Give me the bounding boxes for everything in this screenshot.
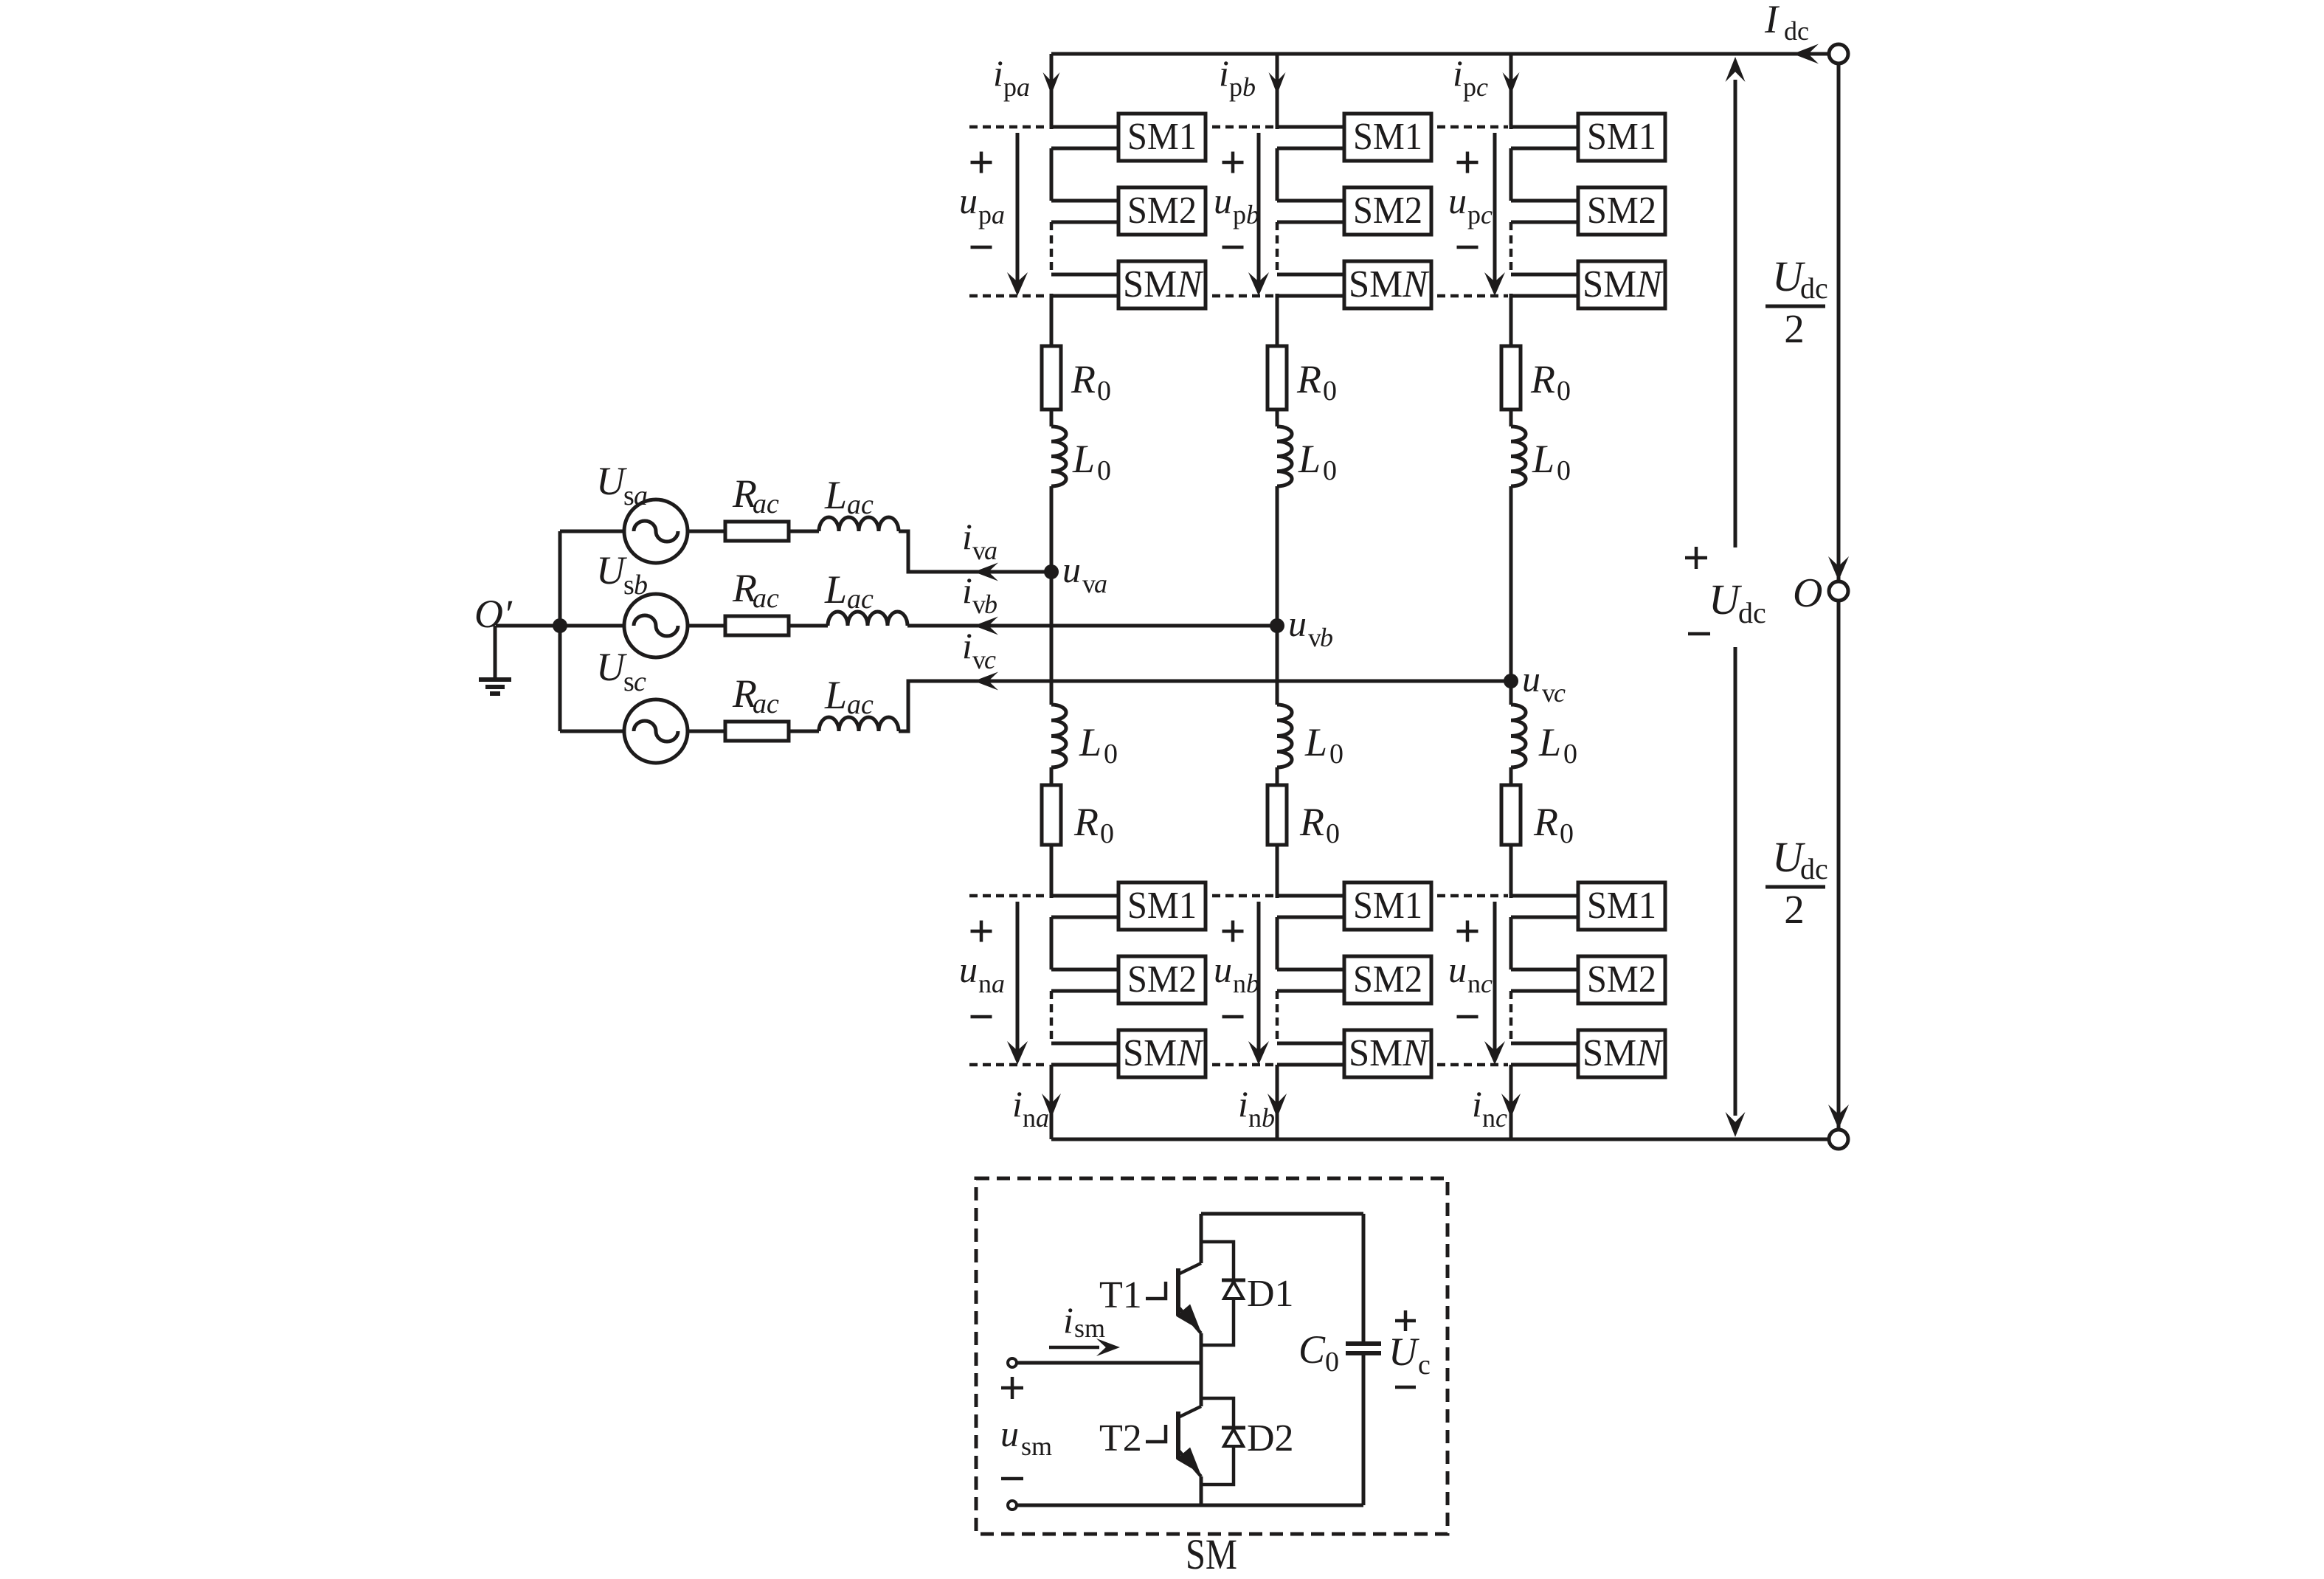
wire source lead left (phase c) xyxy=(560,730,624,733)
svg-text:T2: T2 xyxy=(1099,1417,1142,1459)
svg-text:0: 0 xyxy=(1326,818,1340,849)
wire SMN bottom lead (na) xyxy=(1051,1063,1118,1067)
wire top DC bus xyxy=(1051,52,1829,56)
svg-text:SM2: SM2 xyxy=(1353,958,1422,1001)
node SM input terminal bottom xyxy=(1008,1501,1017,1510)
arrow i_pb xyxy=(1269,72,1286,94)
svg-text:ac: ac xyxy=(753,688,779,719)
svg-text:dc: dc xyxy=(1738,596,1766,629)
resistor R_ac (phase c) xyxy=(725,722,789,741)
svg-text:ac: ac xyxy=(753,583,779,614)
resistor R_ac (phase a) xyxy=(725,522,789,541)
wire SM1-SM2 link (nc) xyxy=(1509,917,1513,970)
svg-text:0: 0 xyxy=(1557,455,1571,486)
arrow u_pb dimension xyxy=(1248,133,1269,296)
label − (U_c) xyxy=(1395,1386,1416,1389)
resistor R0 (upper arm b) xyxy=(1268,346,1287,410)
SM detail dashed box xyxy=(976,1178,1448,1534)
svg-text:i: i xyxy=(962,625,972,666)
svg-text:U: U xyxy=(596,548,627,592)
svg-text:b: b xyxy=(984,590,997,619)
wire SMN bottom lead (pa) xyxy=(1051,294,1118,298)
arrow i_pc xyxy=(1503,72,1520,94)
wire R0 to SM1 (lower a) xyxy=(1050,845,1054,898)
svg-text:p: p xyxy=(978,200,992,229)
svg-text:0: 0 xyxy=(1325,1347,1339,1378)
arrow i_va xyxy=(974,563,998,581)
voltage source U_sb xyxy=(624,594,688,657)
wire SM2 top lead (pc) xyxy=(1511,199,1578,203)
svg-text:SM1: SM1 xyxy=(1353,116,1422,158)
inductor L0 (upper arm c) xyxy=(1511,426,1526,486)
svg-text:b: b xyxy=(634,570,648,601)
label i_sm xyxy=(1063,1299,1105,1343)
label − (u_sm) xyxy=(1001,1477,1023,1481)
svg-text:0: 0 xyxy=(1557,376,1571,407)
svg-text:SMN: SMN xyxy=(1583,263,1664,305)
wire SM top rail xyxy=(1201,1212,1363,1216)
svg-text:u: u xyxy=(1000,1413,1019,1454)
wire SMN top lead (pb) xyxy=(1277,273,1344,277)
wire source to R_ac (phase c) xyxy=(688,730,725,733)
label i_nb xyxy=(1238,1083,1275,1133)
node u_vb xyxy=(1270,618,1284,633)
label u_vc xyxy=(1522,658,1566,708)
wire node to L0 (lower a) xyxy=(1050,572,1054,705)
label U_sc xyxy=(596,645,646,697)
svg-text:SM1: SM1 xyxy=(1353,885,1422,927)
inductor L0 (upper arm a) xyxy=(1051,426,1066,486)
wire SM1-SM2 link (na) xyxy=(1050,917,1054,970)
svg-text:b: b xyxy=(1262,1103,1275,1133)
label − (u_pc) xyxy=(1457,246,1479,249)
wire node to L0 (lower b) xyxy=(1276,626,1279,705)
node AC neutral junction xyxy=(553,618,567,633)
wire SM1 bottom lead (pc) xyxy=(1511,147,1578,151)
label u_va xyxy=(1062,549,1107,598)
wire SM1 top lead (pa) xyxy=(1051,125,1118,129)
label R_ac (phase b) xyxy=(732,566,779,614)
svg-text:U: U xyxy=(596,645,627,689)
wire AC neutral bus xyxy=(558,531,562,731)
arrow u_nc dimension xyxy=(1484,902,1505,1065)
wire SM1-SM2 link (nb) xyxy=(1276,917,1279,970)
label u_na xyxy=(959,949,1005,998)
label u_nb xyxy=(1214,949,1259,998)
wire O' lead xyxy=(496,624,560,628)
svg-text:0: 0 xyxy=(1100,818,1114,849)
arrow u_pa dimension xyxy=(1007,133,1028,296)
label + (u_pc) xyxy=(1457,152,1479,173)
wire SM1 bottom lead (pb) xyxy=(1277,147,1344,151)
wire L0-R0 (lower c) xyxy=(1509,767,1513,785)
label Udc/2 upper fraction xyxy=(1766,252,1828,351)
svg-text:b: b xyxy=(1242,72,1256,102)
resistor R0 (lower arm b) xyxy=(1268,785,1287,845)
wire SM1-SM2 link (pc) xyxy=(1509,148,1513,201)
svg-text:sm: sm xyxy=(1021,1431,1052,1461)
svg-text:SM2: SM2 xyxy=(1127,958,1197,1001)
svg-text:u: u xyxy=(1214,180,1232,221)
wire T1 emitter lead xyxy=(1200,1333,1203,1363)
label u_pc xyxy=(1448,180,1493,229)
wire SM2 bottom lead (pb) xyxy=(1277,221,1344,224)
svg-text:n: n xyxy=(1023,1103,1036,1133)
svg-text:R: R xyxy=(1530,357,1555,401)
label R0 (lower arm b) xyxy=(1299,800,1340,849)
svg-text:I: I xyxy=(1764,0,1780,41)
arrow i_nb xyxy=(1268,1093,1287,1118)
wire D1 branch xyxy=(1201,1242,1234,1345)
wire R_ac to L_ac (phase a) xyxy=(789,530,819,533)
wire SMN to R0 (upper c) xyxy=(1509,294,1513,346)
wire R0-L0 (upper c) xyxy=(1509,410,1513,426)
label T2 xyxy=(1099,1417,1142,1459)
inductor L0 (lower arm a) xyxy=(1051,705,1066,767)
svg-text:0: 0 xyxy=(1104,739,1118,770)
svg-text:2: 2 xyxy=(1784,306,1805,351)
wire dashed bracket top (na) xyxy=(969,894,1048,898)
svg-text:i: i xyxy=(993,52,1003,94)
svg-text:L: L xyxy=(1072,437,1095,481)
inductor L_ac (phase b) xyxy=(828,612,907,626)
node u_va xyxy=(1044,564,1059,579)
svg-text:0: 0 xyxy=(1323,376,1337,407)
svg-text:i: i xyxy=(1453,52,1463,94)
label R0 (lower arm c) xyxy=(1533,800,1574,849)
submodule SM1 (pb) xyxy=(1344,114,1431,161)
label U_dc xyxy=(1709,576,1766,629)
svg-text:p: p xyxy=(1003,72,1017,102)
svg-text:p: p xyxy=(1229,72,1242,102)
svg-text:u: u xyxy=(1448,180,1467,221)
node O (DC midpoint) xyxy=(1829,581,1848,601)
svg-text:L: L xyxy=(1304,720,1327,764)
wire SMN top lead (nb) xyxy=(1277,1042,1344,1046)
label R0 (upper arm c) xyxy=(1530,357,1571,407)
label U_sa xyxy=(596,459,648,511)
wire ground stub xyxy=(494,626,497,677)
label + (u_nb) xyxy=(1222,921,1244,942)
node DC positive terminal xyxy=(1829,44,1848,63)
wire T1 collector xyxy=(1178,1214,1201,1274)
submodule SM2 (pb) xyxy=(1344,187,1431,235)
label − (u_pa) xyxy=(971,246,992,249)
transistor T1 gate xyxy=(1146,1282,1166,1299)
wire SM bottom rail xyxy=(1017,1504,1363,1507)
inductor L_ac (phase a) xyxy=(819,517,899,531)
arrow Udc dimension upper (up) xyxy=(1726,57,1746,547)
label i_vb xyxy=(962,570,997,619)
arrow i_na xyxy=(1042,1093,1061,1118)
label L_ac (phase c) xyxy=(824,673,874,720)
submodule SMN (pa) xyxy=(1118,261,1206,308)
label R_ac (phase c) xyxy=(732,671,779,719)
voltage source U_sa xyxy=(624,500,688,563)
wire SMN bottom lead (nb) xyxy=(1277,1063,1344,1067)
wire SMN top lead (nc) xyxy=(1511,1042,1578,1046)
wire dashed bracket bottom (pb) xyxy=(1212,294,1274,298)
svg-text:c: c xyxy=(1418,1350,1431,1381)
wire SM2 bottom lead (nb) xyxy=(1277,989,1344,993)
wire R0 to SM1 (lower c) xyxy=(1509,845,1513,898)
svg-text:n: n xyxy=(1467,969,1481,998)
wire L_ac step (phase a) xyxy=(899,531,1051,572)
svg-text:SM1: SM1 xyxy=(1587,885,1656,927)
svg-text:c: c xyxy=(1476,72,1488,102)
wire dashed bracket top (pb) xyxy=(1212,125,1274,129)
wire SM2 top lead (pb) xyxy=(1277,199,1344,203)
wire SMN to R0 (upper b) xyxy=(1276,294,1279,346)
wire lower leg to DC bus (phase a) xyxy=(1050,1065,1054,1139)
wire SM1 bottom lead (pa) xyxy=(1051,147,1118,151)
svg-text:L: L xyxy=(824,673,847,717)
svg-text:U: U xyxy=(596,459,627,503)
label + (Udc) xyxy=(1685,547,1707,569)
label L0 (upper arm c) xyxy=(1532,437,1571,486)
svg-text:ac: ac xyxy=(753,488,779,519)
svg-text:a: a xyxy=(1036,1103,1049,1133)
svg-text:s: s xyxy=(623,666,634,697)
label i_nc xyxy=(1472,1083,1507,1133)
svg-text:p: p xyxy=(1233,200,1246,229)
svg-text:u: u xyxy=(959,949,978,990)
submodule SM2 (nc) xyxy=(1578,956,1665,1003)
wire SMN bottom lead (pb) xyxy=(1277,294,1344,298)
transistor T2 emitter xyxy=(1176,1448,1201,1477)
transistor T2 gate xyxy=(1146,1425,1166,1442)
wire L0-R0 (lower a) xyxy=(1050,767,1054,785)
label − (u_nc) xyxy=(1457,1015,1479,1019)
wire SM1 bottom lead (nc) xyxy=(1511,916,1578,919)
svg-text:R: R xyxy=(1071,357,1096,401)
label + (u_pa) xyxy=(971,152,992,173)
svg-text:s: s xyxy=(623,570,634,601)
wire dashed SM2-SMN link (nc) xyxy=(1509,991,1513,1043)
wire source lead left (phase a) xyxy=(560,530,624,533)
wire R_ac to L_ac (phase c) xyxy=(789,730,819,733)
wire SMN top lead (pa) xyxy=(1051,273,1118,277)
label i_pc xyxy=(1453,52,1488,102)
svg-text:a: a xyxy=(984,536,997,565)
resistor R0 (upper arm a) xyxy=(1042,346,1061,410)
wire SM1-SM2 link (pa) xyxy=(1050,148,1054,201)
svg-text:0: 0 xyxy=(1560,818,1574,849)
label u_sm xyxy=(1000,1413,1052,1461)
wire L_ac to node u_vb xyxy=(907,624,1277,628)
svg-text:SM2: SM2 xyxy=(1587,190,1656,232)
wire dashed bracket bottom (nc) xyxy=(1437,1063,1508,1067)
svg-text:R: R xyxy=(1533,800,1558,844)
submodule SM2 (pa) xyxy=(1118,187,1206,235)
submodule SMN (pb) xyxy=(1344,261,1431,308)
resistor R0 (lower arm a) xyxy=(1042,785,1061,845)
svg-text:p: p xyxy=(1463,72,1476,102)
svg-text:i: i xyxy=(1238,1083,1248,1124)
wire R0-L0 (upper b) xyxy=(1276,410,1279,426)
wire SM1 top lead (nb) xyxy=(1277,894,1344,898)
wire SM2 top lead (na) xyxy=(1051,968,1118,972)
label L0 (lower arm a) xyxy=(1079,720,1118,770)
svg-text:sm: sm xyxy=(1074,1313,1105,1343)
arrow I_dc (on top bus) xyxy=(1793,44,1819,64)
inductor L0 (lower arm b) xyxy=(1277,705,1292,767)
wire upper leg from DC bus (phase c) xyxy=(1509,54,1513,129)
wire SMN bottom lead (nc) xyxy=(1511,1063,1578,1067)
label + (U_c) xyxy=(1395,1310,1416,1331)
wire SMN top lead (na) xyxy=(1051,1042,1118,1046)
wire SM1 top lead (pc) xyxy=(1511,125,1578,129)
wire SM2 bottom lead (pc) xyxy=(1511,221,1578,224)
svg-text:n: n xyxy=(978,969,992,998)
svg-text:c: c xyxy=(1554,678,1566,708)
svg-text:dc: dc xyxy=(1800,852,1828,885)
svg-text:i: i xyxy=(1063,1299,1073,1341)
submodule SM1 (pa) xyxy=(1118,114,1206,161)
wire SM2 top lead (pa) xyxy=(1051,199,1118,203)
svg-text:ac: ac xyxy=(847,584,874,615)
svg-text:u: u xyxy=(1062,549,1081,590)
wire SM mid input xyxy=(1017,1361,1201,1365)
wire R0-L0 (upper a) xyxy=(1050,410,1054,426)
svg-text:u: u xyxy=(1522,658,1540,699)
submodule SM1 (nb) xyxy=(1344,882,1431,930)
label L0 (upper arm a) xyxy=(1072,437,1111,486)
svg-text:SM1: SM1 xyxy=(1127,116,1197,158)
svg-text:n: n xyxy=(1233,969,1246,998)
label + (u_na) xyxy=(971,921,992,942)
wire SM2 top lead (nc) xyxy=(1511,968,1578,972)
wire D2 branch xyxy=(1201,1398,1234,1485)
submodule SMN (nc) xyxy=(1578,1030,1665,1077)
svg-text:2: 2 xyxy=(1784,887,1805,932)
svg-text:SM2: SM2 xyxy=(1353,190,1422,232)
svg-text:u: u xyxy=(1448,949,1467,990)
wire upper leg from DC bus (phase a) xyxy=(1050,54,1054,129)
svg-text:SM1: SM1 xyxy=(1127,885,1197,927)
wire dashed bracket top (nc) xyxy=(1437,894,1508,898)
wire L0 to node u_vb xyxy=(1276,486,1279,626)
svg-text:L: L xyxy=(824,473,847,517)
resistor R_ac (phase b) xyxy=(725,616,789,635)
svg-text:a: a xyxy=(992,200,1005,229)
svg-text:i: i xyxy=(1012,1083,1023,1124)
submodule SM1 (na) xyxy=(1118,882,1206,930)
svg-text:c: c xyxy=(1495,1103,1507,1133)
svg-text:i: i xyxy=(1472,1083,1482,1124)
svg-text:R: R xyxy=(1296,357,1321,401)
submodule SM2 (na) xyxy=(1118,956,1206,1003)
wire SM1 bottom lead (nb) xyxy=(1277,916,1344,919)
svg-text:D2: D2 xyxy=(1247,1417,1294,1459)
wire L0 to node u_vc xyxy=(1509,486,1513,681)
wire dashed bracket top (pa) xyxy=(969,125,1048,129)
submodule SMN (pc) xyxy=(1578,261,1665,308)
svg-text:n: n xyxy=(1482,1103,1495,1133)
wire SM2 bottom lead (pa) xyxy=(1051,221,1118,224)
voltage source U_sc xyxy=(624,699,688,763)
label i_pb xyxy=(1219,52,1256,102)
label L_ac (phase b) xyxy=(824,567,874,615)
label U_sb xyxy=(596,548,648,601)
svg-text:a: a xyxy=(1094,569,1107,598)
label Udc/2 lower fraction xyxy=(1766,833,1828,932)
submodule SM1 (pc) xyxy=(1578,114,1665,161)
label L0 (lower arm b) xyxy=(1304,720,1343,770)
label C0 xyxy=(1298,1327,1339,1378)
svg-text:L: L xyxy=(1532,437,1554,481)
label − (u_pb) xyxy=(1222,246,1244,249)
svg-text:L: L xyxy=(1079,720,1102,764)
svg-text:a: a xyxy=(634,480,648,511)
svg-text:ac: ac xyxy=(847,689,874,720)
svg-text:dc: dc xyxy=(1800,272,1828,305)
arrow i_pa xyxy=(1043,72,1060,94)
label I_dc xyxy=(1764,0,1809,46)
svg-text:R: R xyxy=(1299,800,1324,844)
svg-text:c: c xyxy=(634,666,646,697)
label D1 xyxy=(1247,1273,1294,1315)
label R0 (lower arm a) xyxy=(1073,800,1114,849)
ground symbol xyxy=(479,680,511,694)
svg-text:b: b xyxy=(1246,200,1259,229)
wire SMN bottom lead (pc) xyxy=(1511,294,1578,298)
wire dashed bracket bottom (pa) xyxy=(969,294,1048,298)
svg-text:R: R xyxy=(1073,800,1099,844)
svg-text:SM: SM xyxy=(1186,1530,1237,1578)
arrow Udc dimension lower (down) xyxy=(1726,647,1746,1137)
resistor R0 (lower arm c) xyxy=(1501,785,1521,845)
wire L0-R0 (lower b) xyxy=(1276,767,1279,785)
transistor T1 bar xyxy=(1176,1268,1180,1316)
svg-text:u: u xyxy=(1288,603,1307,644)
wire lower leg to DC bus (phase b) xyxy=(1276,1065,1279,1139)
wire SM2 top lead (nb) xyxy=(1277,968,1344,972)
wire SMN top lead (pc) xyxy=(1511,273,1578,277)
label SM (detail) xyxy=(1186,1530,1237,1578)
svg-text:SM1: SM1 xyxy=(1587,116,1656,158)
wire SM1 top lead (nc) xyxy=(1511,894,1578,898)
label + (u_sm) xyxy=(1001,1377,1023,1399)
svg-text:U: U xyxy=(1388,1330,1419,1374)
svg-text:SM2: SM2 xyxy=(1127,190,1197,232)
label O xyxy=(1793,570,1822,616)
svg-text:c: c xyxy=(984,645,996,674)
arrow i_vb xyxy=(974,617,998,635)
label i_vc xyxy=(962,625,996,674)
label u_vb xyxy=(1288,603,1333,652)
inductor L0 (lower arm c) xyxy=(1511,705,1526,767)
svg-text:b: b xyxy=(1320,623,1333,652)
wire dashed SM2-SMN link (nb) xyxy=(1276,991,1279,1043)
label i_va xyxy=(962,516,997,565)
wire bottom DC bus xyxy=(1051,1138,1829,1141)
wire R0 to SM1 (lower b) xyxy=(1276,845,1279,898)
wire dashed SM2-SMN link (pa) xyxy=(1050,222,1054,274)
svg-text:O: O xyxy=(1793,570,1822,616)
label R0 (upper arm b) xyxy=(1296,357,1337,407)
svg-text:SMN: SMN xyxy=(1583,1032,1664,1074)
submodule SMN (nb) xyxy=(1344,1030,1431,1077)
submodule SM2 (nb) xyxy=(1344,956,1431,1003)
label − (u_nb) xyxy=(1222,1015,1244,1019)
node u_vc xyxy=(1504,674,1518,688)
svg-text:SMN: SMN xyxy=(1123,1032,1204,1074)
svg-text:s: s xyxy=(623,480,634,511)
transistor T1 emitter xyxy=(1176,1305,1201,1334)
svg-text:c: c xyxy=(1481,969,1493,998)
label L_ac (phase a) xyxy=(824,473,874,520)
